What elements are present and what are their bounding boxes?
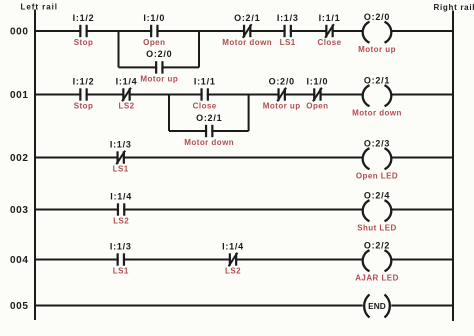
rung 001 wire bbox=[35, 94, 363, 96]
rung 002 wire bbox=[35, 157, 363, 159]
rung 004 wire bbox=[35, 259, 363, 261]
contact XIC I:1/1 rung1 (I:1/1 Close, NO) bbox=[202, 88, 208, 100]
rung 002 wire, coil to right rail bbox=[391, 157, 453, 159]
svg-text:000: 000 bbox=[10, 27, 29, 38]
svg-text:LS2: LS2 bbox=[113, 217, 129, 226]
svg-text:Close: Close bbox=[317, 38, 341, 47]
contact XIC I:1/2 rung1 (I:1/2 Stop, NO) bbox=[80, 88, 86, 100]
contact XIC I:1/0 rung0 (I:1/0 Open, NO) bbox=[151, 25, 157, 37]
rung 005 wire bbox=[35, 305, 363, 307]
svg-text:Close: Close bbox=[193, 102, 217, 111]
svg-text:O:2/3: O:2/3 bbox=[364, 139, 390, 149]
rung 003 wire, coil to right rail bbox=[391, 209, 453, 211]
contact XIO I:1/4 rung4 (I:1/4 LS2, NC) bbox=[229, 253, 238, 267]
contact XIC O:2/0 branch rung0 (O:2/0 Motor up, NO) bbox=[156, 61, 162, 73]
contact XIC I:1/3 rung0 (I:1/3 LS1, NO) bbox=[285, 25, 291, 37]
svg-text:002: 002 bbox=[10, 153, 29, 164]
contact XIO I:1/0 rung1 (I:1/0 Open, NC) bbox=[313, 88, 322, 102]
svg-text:Open LED: Open LED bbox=[356, 171, 398, 180]
svg-text:Motor up: Motor up bbox=[263, 102, 301, 111]
rung 005 wire, coil to right rail bbox=[391, 305, 453, 307]
svg-text:Stop: Stop bbox=[74, 102, 94, 111]
svg-text:Stop: Stop bbox=[74, 38, 94, 47]
contact XIO O:2/1 rung0 (O:2/1 Motor down, NC) bbox=[243, 24, 252, 38]
svg-text:O:2/0: O:2/0 bbox=[269, 76, 295, 86]
svg-text:I:1/1: I:1/1 bbox=[194, 76, 216, 86]
right rail bbox=[452, 11, 454, 322]
svg-text:O:2/4: O:2/4 bbox=[364, 191, 390, 201]
svg-text:O:2/1: O:2/1 bbox=[364, 76, 390, 86]
svg-text:O:2/1: O:2/1 bbox=[196, 113, 222, 123]
svg-text:LS1: LS1 bbox=[280, 38, 296, 47]
contact XIO I:1/1 rung0 (I:1/1 Close, NC) bbox=[325, 24, 334, 38]
svg-text:Motor down: Motor down bbox=[352, 108, 402, 117]
rung 000 wire, coil to right rail bbox=[391, 30, 453, 32]
coil OTE O:2/0 rung0 (O:2/0 Motor up) bbox=[363, 22, 392, 43]
svg-text:Motor down: Motor down bbox=[184, 138, 234, 147]
svg-text:004: 004 bbox=[10, 255, 29, 266]
rung 004 wire, coil to right rail bbox=[391, 259, 453, 261]
svg-text:LS2: LS2 bbox=[225, 267, 241, 276]
svg-text:END: END bbox=[368, 301, 386, 311]
svg-text:Left rail: Left rail bbox=[21, 3, 58, 12]
svg-text:O:2/0: O:2/0 bbox=[364, 12, 390, 22]
svg-text:I:1/2: I:1/2 bbox=[73, 13, 95, 23]
svg-text:I:1/4: I:1/4 bbox=[110, 191, 132, 201]
contact XIC I:1/4 rung3 (I:1/4 LS2, NO) bbox=[118, 203, 124, 215]
contact XIC I:1/3 rung4 (I:1/3 LS1, NO) bbox=[118, 253, 124, 265]
svg-text:O:2/2: O:2/2 bbox=[364, 241, 390, 251]
left rail bbox=[34, 10, 36, 321]
svg-text:LS1: LS1 bbox=[113, 267, 129, 276]
END coil bbox=[364, 295, 390, 318]
coil OTE O:2/3 rung2 (O:2/3 Open LED) bbox=[363, 148, 392, 169]
svg-text:I:1/3: I:1/3 bbox=[110, 241, 132, 251]
svg-text:O:2/1: O:2/1 bbox=[234, 13, 260, 23]
coil OTE O:2/2 rung4 (O:2/2 AJAR LED) bbox=[363, 250, 392, 271]
coil OTE O:2/4 rung3 (O:2/4 Shut LED) bbox=[363, 200, 392, 221]
svg-text:I:1/2: I:1/2 bbox=[73, 76, 95, 86]
svg-text:I:1/0: I:1/0 bbox=[307, 76, 329, 86]
svg-text:Motor up: Motor up bbox=[358, 45, 396, 54]
svg-text:LS1: LS1 bbox=[113, 165, 129, 174]
rung 001 wire, coil to right rail bbox=[391, 94, 453, 96]
contact XIC O:2/1 branch rung1 (O:2/1 Motor down, NO) bbox=[206, 125, 212, 137]
coil OTE O:2/1 rung1 (O:2/1 Motor down) bbox=[363, 85, 392, 106]
svg-text:Motor down: Motor down bbox=[222, 38, 272, 47]
svg-text:I:1/4: I:1/4 bbox=[222, 241, 244, 251]
svg-text:001: 001 bbox=[10, 90, 29, 101]
rung 003 wire bbox=[35, 209, 363, 211]
svg-text:LS2: LS2 bbox=[118, 102, 134, 111]
svg-text:I:1/1: I:1/1 bbox=[319, 13, 341, 23]
svg-text:Motor up: Motor up bbox=[140, 75, 178, 84]
svg-text:003: 003 bbox=[10, 205, 29, 216]
svg-text:005: 005 bbox=[10, 301, 29, 312]
rung 000 branch wire around I:1/0 Open bbox=[119, 31, 200, 67]
svg-text:I:1/3: I:1/3 bbox=[277, 13, 299, 23]
rung 000 wire bbox=[35, 30, 363, 32]
svg-text:O:2/0: O:2/0 bbox=[146, 49, 172, 59]
contact XIC I:1/2 rung0 (I:1/2 Stop, NO) bbox=[80, 25, 86, 37]
rung 001 branch wire around I:1/1 Close bbox=[169, 95, 249, 132]
svg-text:Open: Open bbox=[143, 38, 165, 47]
svg-text:I:1/4: I:1/4 bbox=[116, 76, 138, 86]
svg-text:I:1/3: I:1/3 bbox=[110, 139, 132, 149]
contact XIO I:1/4 rung1 (I:1/4 LS2, NC) bbox=[122, 88, 131, 102]
svg-text:I:1/0: I:1/0 bbox=[143, 13, 165, 23]
svg-text:Open: Open bbox=[306, 102, 328, 111]
svg-text:AJAR LED: AJAR LED bbox=[355, 273, 399, 282]
svg-text:Shut LED: Shut LED bbox=[357, 223, 397, 232]
contact XIO O:2/0 rung1 (O:2/0 Motor up, NC) bbox=[277, 88, 286, 102]
contact XIO I:1/3 rung2 (I:1/3 LS1, NC) bbox=[116, 151, 125, 165]
